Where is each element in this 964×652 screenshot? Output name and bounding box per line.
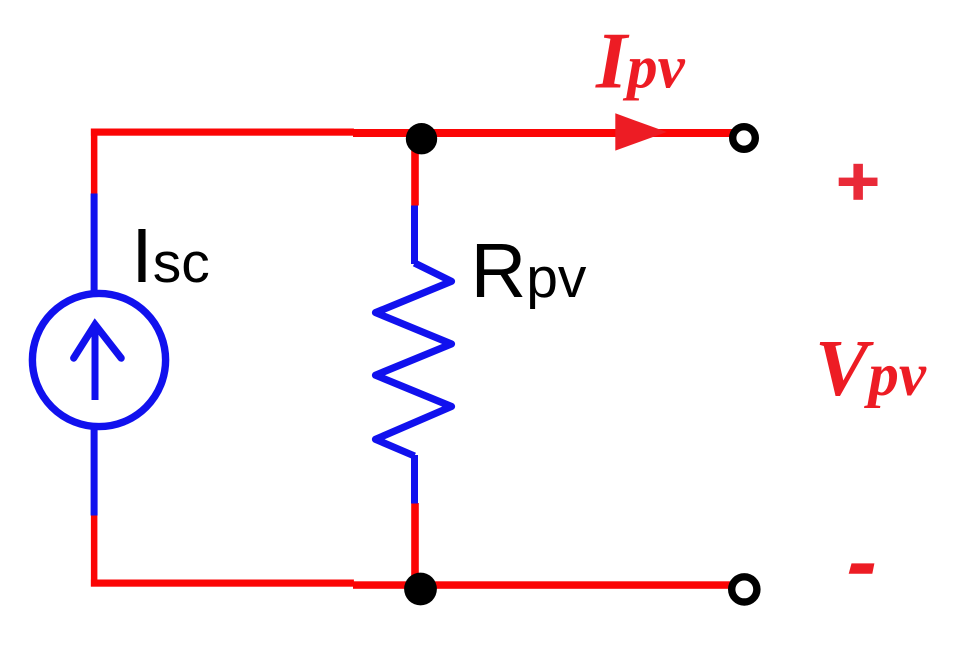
svg-text:Rpv: Rpv <box>471 228 587 314</box>
svg-text:Vpv: Vpv <box>815 325 927 413</box>
svg-text:Isc: Isc <box>131 213 209 299</box>
svg-text:Ipv: Ipv <box>595 18 686 106</box>
